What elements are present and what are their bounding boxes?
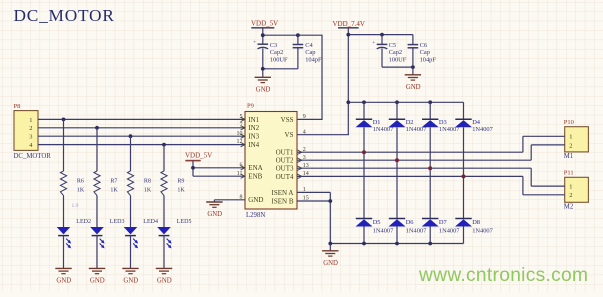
wire R6 to LED <box>63 196 65 228</box>
wire D1 to D5 <box>363 127 365 218</box>
wire P10 pin2 drop <box>530 145 532 160</box>
pin 9 VSS <box>281 114 306 124</box>
wire VSS stub to pin 9 <box>297 118 323 120</box>
pin 15 ISEN B <box>272 196 309 206</box>
resistor R8 <box>127 171 151 196</box>
node junction top bus D1 <box>362 100 366 104</box>
wire C6 bottom <box>412 48 414 67</box>
wire enable stem <box>192 161 194 177</box>
svg-text:VDD_5V: VDD_5V <box>185 151 212 159</box>
wire to ENA <box>193 167 245 169</box>
ground GND (bus) <box>322 251 338 267</box>
diode D5 <box>356 219 395 235</box>
wire VDD_5V bus to C4 and VSS corner <box>263 34 322 36</box>
svg-text:D8: D8 <box>472 219 480 226</box>
wire P8 pin 3 to IN3 <box>38 135 245 137</box>
node junction top bus D2 <box>395 100 399 104</box>
svg-text:12: 12 <box>237 139 243 145</box>
wire P11 pin1 <box>531 185 565 187</box>
svg-text:+: + <box>253 40 256 46</box>
svg-text:GND: GND <box>123 278 138 285</box>
svg-text:Cap2: Cap2 <box>389 49 403 56</box>
svg-text:IN1: IN1 <box>248 116 259 124</box>
svg-text:ENA: ENA <box>248 164 262 172</box>
svg-text:1N4007: 1N4007 <box>472 126 493 133</box>
wire R8 to LED <box>130 196 132 228</box>
svg-text:P11: P11 <box>564 170 574 177</box>
pin 2 OUT1 <box>276 147 306 157</box>
svg-text:www.cntronics.com: www.cntronics.com <box>418 265 588 286</box>
wire D5 to bottom bus <box>363 227 365 244</box>
svg-text:VSS: VSS <box>281 116 294 124</box>
resistor R7 <box>94 171 119 196</box>
svg-text:1N4007: 1N4007 <box>472 228 493 235</box>
wire drop to R8 <box>130 136 132 171</box>
wire ISEN A <box>297 191 330 193</box>
svg-text:C4: C4 <box>305 42 313 49</box>
resistor R9 <box>161 171 186 196</box>
capacitor C3 <box>253 40 288 64</box>
svg-text:OUT1: OUT1 <box>276 149 294 157</box>
node junction bottom bus D5 <box>362 242 366 246</box>
svg-text:1: 1 <box>569 134 572 141</box>
svg-text:1: 1 <box>569 184 572 191</box>
pin 11 ENB <box>237 171 263 181</box>
svg-text:LED3: LED3 <box>110 219 125 225</box>
power symbol VDD_5V (top) <box>251 20 278 28</box>
svg-text:GND: GND <box>207 211 222 218</box>
svg-text:1N4007: 1N4007 <box>406 228 427 235</box>
wire VDD_7.4V stem down to VS <box>347 28 349 135</box>
svg-text:Cap2: Cap2 <box>270 49 284 56</box>
node junction OUT1/diode column <box>362 150 366 154</box>
svg-text:R8: R8 <box>144 178 151 184</box>
svg-text:2: 2 <box>29 125 32 132</box>
wire LED to ground <box>163 236 165 269</box>
svg-text:2: 2 <box>569 142 572 149</box>
svg-text:OUT3: OUT3 <box>276 165 294 173</box>
diode D6 <box>389 219 428 235</box>
ground GND (col 1) <box>55 268 71 284</box>
power symbol VDD_5V (enable) <box>185 151 212 160</box>
ground GND (pin 8) <box>206 202 222 218</box>
pin 5 IN1 <box>240 114 260 124</box>
svg-text:GND: GND <box>90 278 105 285</box>
svg-text:VDD_5V: VDD_5V <box>251 20 278 28</box>
svg-text:D1: D1 <box>373 119 381 126</box>
resistor R6 <box>60 171 85 196</box>
wire R9 to LED <box>163 196 165 228</box>
wire P11 pin1 riser <box>530 168 532 186</box>
wire top bus to D2 <box>396 102 398 119</box>
node junction bottom bus left <box>328 242 332 246</box>
wire C4 bottom <box>297 48 299 69</box>
svg-text:P9: P9 <box>247 103 254 110</box>
svg-text:D7: D7 <box>439 219 448 226</box>
wire P8 pin 2 to IN2 <box>38 127 245 129</box>
svg-text:2: 2 <box>569 192 572 199</box>
svg-text:D4: D4 <box>472 119 481 126</box>
wire GND stem (C6) <box>412 67 414 75</box>
node junction bottom bus D7 <box>428 242 432 246</box>
svg-text:IN4: IN4 <box>248 141 259 149</box>
pin 13 OUT3 <box>276 163 309 173</box>
pin 8 GND <box>240 194 264 204</box>
svg-text:1.9: 1.9 <box>72 203 79 209</box>
connector P11 <box>564 170 589 211</box>
wire P10 pin1 drop <box>522 136 524 152</box>
node junction C5 top <box>380 33 384 37</box>
svg-text:R7: R7 <box>110 178 117 184</box>
capacitor C5 <box>372 40 407 64</box>
wire D6 to bottom bus <box>396 227 398 244</box>
svg-text:GND: GND <box>157 278 172 285</box>
wire ISEN B <box>297 200 330 202</box>
svg-text:100UF: 100UF <box>270 57 288 64</box>
wire P8 pin 4 to IN4 <box>38 144 245 146</box>
wire drop to R6 <box>63 119 65 171</box>
svg-text:GND: GND <box>323 260 338 267</box>
svg-text:9: 9 <box>303 114 306 120</box>
pin 10 IN3 <box>237 131 260 141</box>
svg-text:DC_MOTOR: DC_MOTOR <box>14 153 52 160</box>
wire P10 pin1 <box>523 135 565 137</box>
wire OUT4 net <box>297 175 523 177</box>
wire P10 pin2 <box>531 144 565 146</box>
node junction OUT2/diode column <box>395 158 399 162</box>
node junction VDD_5V/C3 <box>261 33 265 37</box>
svg-text:GND: GND <box>406 84 421 91</box>
connector P8 <box>14 103 52 160</box>
svg-text:1K: 1K <box>110 187 118 193</box>
node junction top bus D3 <box>428 100 432 104</box>
wire OUT2 net <box>297 159 531 161</box>
svg-text:1N4007: 1N4007 <box>439 228 460 235</box>
svg-text:OUT4: OUT4 <box>276 173 294 181</box>
pin 3 OUT2 <box>276 155 306 165</box>
svg-text:ISEN B: ISEN B <box>272 197 294 205</box>
node junction VDD_7.4V <box>346 33 350 37</box>
pin 4 VS <box>285 129 306 139</box>
ground GND (col 3) <box>122 268 138 284</box>
svg-text:VS: VS <box>285 131 294 139</box>
svg-text:D6: D6 <box>406 219 414 226</box>
wire VS pin 4 to VDD_7.4V <box>297 134 349 136</box>
wire P8 pin 1 to IN1 <box>38 118 245 120</box>
svg-text:M2: M2 <box>564 203 574 210</box>
node junction stem/top bus <box>346 100 350 104</box>
wire D4 to D8 <box>463 127 465 218</box>
svg-text:D5: D5 <box>373 219 381 226</box>
node junction LED branch 1 <box>62 118 66 122</box>
wire drop to R9 <box>163 145 165 171</box>
LED LED3 <box>90 219 124 249</box>
svg-text:P8: P8 <box>14 103 21 110</box>
wire C5 bottom <box>381 48 383 67</box>
ground GND (C6) <box>405 75 421 91</box>
node junction bottom bus D6 <box>395 242 399 246</box>
node junction LED branch 2 <box>95 126 99 130</box>
node junction C3/C4 rail <box>261 67 265 71</box>
wire drop to R7 <box>96 128 98 171</box>
wire D8 to bottom bus <box>463 227 465 244</box>
LED LED5 <box>157 219 191 249</box>
ground GND (col 2) <box>89 268 105 284</box>
svg-text:IN3: IN3 <box>248 133 259 141</box>
svg-text:LED4: LED4 <box>143 219 158 225</box>
pin 7 IN2 <box>240 122 260 132</box>
node junction ISEN <box>328 199 332 203</box>
node junction LED branch 3 <box>129 134 133 138</box>
wire D2 to D6 <box>396 127 398 218</box>
node junction OUT3/diode column <box>428 166 432 170</box>
svg-text:IN2: IN2 <box>248 124 259 132</box>
wire top bus to D3 <box>429 102 431 119</box>
svg-text:1: 1 <box>29 117 32 124</box>
pin 14 OUT4 <box>276 171 309 181</box>
svg-text:R9: R9 <box>177 178 184 184</box>
wire VDD_7.4V bus to C5 C6 <box>348 34 413 36</box>
svg-text:3: 3 <box>29 134 32 141</box>
svg-text:100UF: 100UF <box>389 57 407 64</box>
svg-text:10: 10 <box>237 131 243 137</box>
diode D7 <box>422 219 461 235</box>
diode D3 <box>422 119 461 133</box>
node junction rail/GND <box>411 65 415 69</box>
wire VDD_5V stem <box>262 28 264 44</box>
svg-text:OUT2: OUT2 <box>276 157 294 165</box>
pin 6 ENA <box>240 162 263 172</box>
wire C5 stem top <box>381 35 383 45</box>
wire C5-C6 rail <box>382 66 413 68</box>
node junction ENA <box>191 166 195 170</box>
svg-text:GND: GND <box>56 278 71 285</box>
op-amp driver IC P9 L298N body <box>245 103 297 220</box>
wire GND stem (bus) <box>329 244 331 251</box>
diode D8 <box>455 219 494 235</box>
wire C4-C3 rail <box>263 68 298 70</box>
svg-text:D3: D3 <box>439 119 447 126</box>
wire OUT1 net <box>297 151 523 153</box>
svg-text:LED5: LED5 <box>177 219 192 225</box>
svg-text:104pF: 104pF <box>305 57 322 64</box>
wire P11 pin2 <box>523 194 565 196</box>
wire GND pin 8 drop <box>213 200 215 202</box>
svg-text:+: + <box>372 40 375 46</box>
svg-text:M1: M1 <box>564 153 573 160</box>
svg-text:VDD_7.4V: VDD_7.4V <box>333 20 365 28</box>
svg-text:R6: R6 <box>77 178 84 184</box>
svg-text:Cap: Cap <box>305 49 315 56</box>
wire OUT3 net <box>297 167 531 169</box>
node junction OUT4/diode column <box>462 174 466 178</box>
svg-text:104pF: 104pF <box>420 57 437 64</box>
svg-text:ISEN A: ISEN A <box>272 189 294 197</box>
wire GND pin 8 stub <box>214 199 245 201</box>
wire ISEN A drop <box>329 192 331 243</box>
pin 12 IN4 <box>237 139 260 149</box>
wire top bus VDD_7.4V <box>348 101 463 103</box>
ground GND (C3) <box>255 77 271 93</box>
wire C6 stem top <box>412 35 414 45</box>
svg-text:GND: GND <box>256 87 271 94</box>
svg-text:D2: D2 <box>406 119 414 126</box>
node junction LED branch 4 <box>162 143 166 147</box>
wire bottom bus GND <box>330 243 463 245</box>
power symbol VDD_7.4V <box>333 20 365 28</box>
svg-text:LED2: LED2 <box>76 219 91 225</box>
wire D3 to D7 <box>429 127 431 218</box>
svg-text:1K: 1K <box>77 187 85 193</box>
node junction C4 top <box>296 33 300 37</box>
LED LED2 <box>57 219 91 249</box>
wire VSS drop <box>321 35 323 120</box>
ground GND (col 4) <box>156 268 172 284</box>
svg-text:Cap: Cap <box>420 49 430 56</box>
svg-text:GND: GND <box>248 196 263 204</box>
svg-text:1K: 1K <box>177 187 185 193</box>
LED LED4 <box>124 219 158 249</box>
diode D1 <box>356 119 395 133</box>
wire top bus to D4 <box>463 102 465 119</box>
wire C3 bottom <box>262 48 264 77</box>
svg-text:L298N: L298N <box>246 212 265 219</box>
wire to ENB <box>193 175 245 177</box>
connector P10 <box>564 119 589 160</box>
svg-text:ENB: ENB <box>248 173 262 181</box>
svg-text:DC_MOTOR: DC_MOTOR <box>14 6 115 25</box>
capacitor C4 <box>293 42 322 64</box>
wire LED to ground <box>63 236 65 269</box>
wire LED to ground <box>96 236 98 269</box>
diode D4 <box>455 119 494 133</box>
svg-text:C3: C3 <box>270 42 277 49</box>
wire R7 to LED <box>96 196 98 228</box>
pin 1 ISEN A <box>272 187 306 197</box>
svg-text:C5: C5 <box>389 42 396 49</box>
svg-text:1K: 1K <box>144 187 152 193</box>
svg-text:P10: P10 <box>564 119 574 126</box>
wire D7 to bottom bus <box>429 227 431 244</box>
svg-text:1N4007: 1N4007 <box>373 228 394 235</box>
capacitor C6 <box>408 42 437 64</box>
diode D2 <box>389 119 428 133</box>
wire C4 stem top <box>297 35 299 44</box>
wire LED to ground <box>130 236 132 269</box>
wire P11 pin2 riser <box>522 176 524 194</box>
svg-text:C6: C6 <box>420 42 427 49</box>
wire top bus to D1 <box>363 102 365 119</box>
